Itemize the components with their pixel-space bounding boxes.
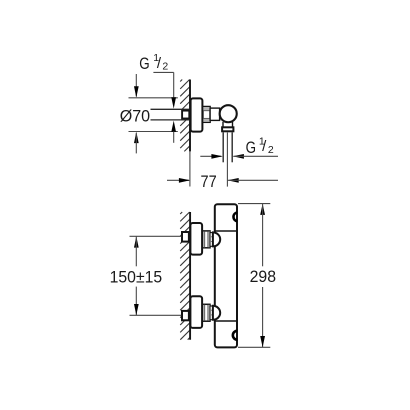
upper wall nipple square bbox=[182, 232, 189, 242]
pipe centre extension line bbox=[226, 133, 228, 187]
dimension 150±15: extension lines bbox=[130, 236, 182, 315]
connector spacer (top view) bbox=[210, 108, 220, 120]
dimension Ø70: arrows and line bbox=[134, 74, 139, 153]
supply pipe stub through wall (top view) bbox=[151, 109, 191, 120]
wall (top view) hatched band bbox=[180, 80, 190, 152]
wall (front view) hatched band bbox=[180, 212, 190, 340]
svg-text:77: 77 bbox=[201, 173, 217, 191]
lower union hex nut bbox=[203, 304, 210, 321]
wall face extension line continuing down (77 dim reference) bbox=[189, 151, 191, 186]
thermostat body bar bbox=[215, 204, 237, 347]
hex nut (top view) bbox=[203, 107, 210, 123]
upper union dome bbox=[213, 232, 220, 246]
grip crescent upper (on body right edge) bbox=[233, 213, 237, 222]
lower wall nipple square bbox=[182, 311, 189, 320]
callout G1/2 (shower outlet thread): arrows bbox=[200, 154, 278, 159]
grip crescent lower (on body right edge) bbox=[233, 331, 237, 340]
body seam lower bbox=[215, 320, 237, 322]
dimension 298: line and arrows bbox=[260, 204, 265, 348]
outlet neck below circle bbox=[223, 122, 233, 127]
svg-text:G: G bbox=[246, 139, 256, 157]
lower union dome bbox=[213, 306, 220, 320]
upper union thread bbox=[210, 233, 213, 247]
dimension 77: lines and arrows bbox=[167, 178, 278, 183]
svg-text:G: G bbox=[139, 55, 149, 73]
svg-text:298: 298 bbox=[250, 268, 276, 286]
svg-text:2: 2 bbox=[268, 144, 274, 156]
outlet collar bbox=[222, 127, 233, 131]
callout G1/2 (shower outlet thread): label bbox=[246, 135, 274, 157]
dimension Ø70: extension lines bbox=[129, 98, 178, 132]
callout G1/2 (wall connection): label bbox=[139, 52, 168, 73]
svg-text:2: 2 bbox=[162, 61, 168, 73]
upper escutcheon (front) bbox=[190, 223, 202, 255]
lower escutcheon (front) bbox=[190, 296, 202, 328]
body seam upper bbox=[215, 230, 237, 232]
svg-text:150±15: 150±15 bbox=[110, 268, 163, 286]
svg-text:Ø70: Ø70 bbox=[120, 107, 150, 125]
dimension 150±15: line and arrows bbox=[134, 236, 139, 315]
dimension 298: extension lines bbox=[238, 204, 270, 348]
lower union thread bbox=[210, 306, 213, 320]
G1/2 threaded nipple square (top view) bbox=[182, 111, 189, 119]
escutcheon / rosette (top view side profile) bbox=[191, 98, 203, 131]
valve body circle (top view) bbox=[220, 105, 237, 122]
shower outlet pipe (top view) bbox=[223, 132, 232, 162]
upper union hex nut bbox=[203, 231, 210, 248]
callout G1/2 (wall connection): leader + arrows bbox=[153, 72, 176, 142]
